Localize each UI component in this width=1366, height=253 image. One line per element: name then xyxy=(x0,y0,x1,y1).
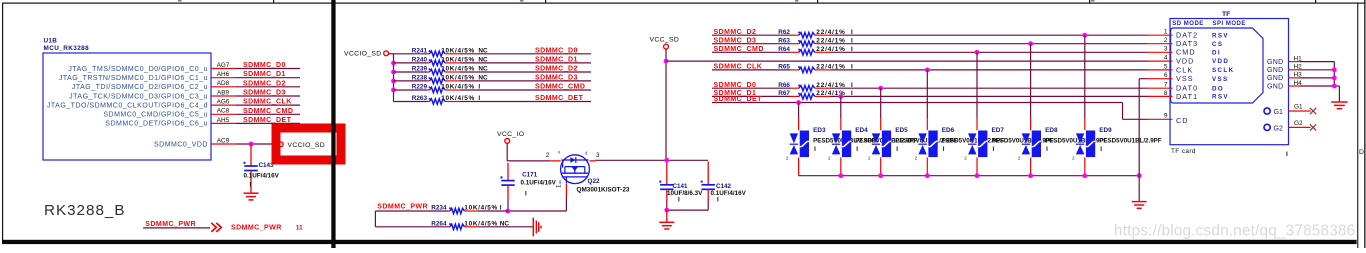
U1B pin AG7 (JTAG_TMS/SDMMC0_D0/GPIO6_C0_u) xyxy=(68,62,235,73)
TVS diode ED6 symbol xyxy=(915,131,938,161)
TVS diode ED7 symbol xyxy=(964,131,987,161)
junction GND bus xyxy=(1332,67,1337,72)
Q22 pin 3 stub xyxy=(590,152,601,161)
svg-text:AC8: AC8 xyxy=(217,108,230,115)
junction bus ED5 xyxy=(878,173,883,178)
resistor R241 10K/4/5% xyxy=(394,47,489,56)
svg-text:H1: H1 xyxy=(1294,55,1303,62)
TF pin 1 DAT2 xyxy=(1148,29,1229,40)
svg-text:C171: C171 xyxy=(522,172,538,179)
junction bus to VSS vertical xyxy=(1137,173,1142,178)
net label SDMMC_CMD xyxy=(712,46,791,53)
svg-text:R238: R238 xyxy=(412,75,428,82)
svg-text:DAT1: DAT1 xyxy=(1176,92,1198,101)
junction bus ED9 xyxy=(1082,173,1087,178)
svg-text:GND: GND xyxy=(1267,59,1283,66)
svg-text:G2: G2 xyxy=(1274,126,1283,133)
svg-text:R241: R241 xyxy=(412,47,428,54)
svg-text:I: I xyxy=(250,182,252,189)
svg-text:I: I xyxy=(525,191,527,198)
svg-text:SDMMC_DET: SDMMC_DET xyxy=(535,95,584,102)
wire net SDMMC_D1 xyxy=(460,56,591,63)
ground below C143 xyxy=(244,193,259,200)
TF pin 6 VSS xyxy=(1148,72,1229,83)
svg-text:SDMMC0_CMD/GPIO6_C5_u: SDMMC0_CMD/GPIO6_C5_u xyxy=(103,112,208,119)
svg-text:8: 8 xyxy=(1164,90,1168,97)
label ED4 PESD5V0U1BL/2.9PF xyxy=(855,127,917,153)
ground TVS/VSS xyxy=(1132,201,1147,209)
svg-text:SDMMC_D2: SDMMC_D2 xyxy=(535,66,578,73)
svg-text:0.1UF/4/16V: 0.1UF/4/16V xyxy=(244,173,280,180)
TVS diode ED4 symbol xyxy=(828,131,851,161)
svg-text:1: 1 xyxy=(1164,29,1168,36)
resistor R240 10K/4/5% xyxy=(394,57,489,66)
ground TF GND pins xyxy=(1331,102,1348,109)
svg-text:R67: R67 xyxy=(778,90,790,97)
TVS diode ED8 symbol xyxy=(1018,131,1041,161)
svg-text:D: D xyxy=(1359,149,1364,156)
svg-text:PESD5V0U1BL/2.9PF: PESD5V0U1BL/2.9PF xyxy=(1099,137,1161,144)
svg-text:AH5: AH5 xyxy=(217,117,230,124)
U1B pin AH5 (SDMMC0_DET/GPIO6_C6_u) xyxy=(105,117,235,128)
svg-text:SPI MODE: SPI MODE xyxy=(1213,21,1246,27)
net label SDMMC_D1 xyxy=(712,90,791,97)
svg-text:10UF/8/6.3V: 10UF/8/6.3V xyxy=(667,190,703,197)
junction bus ED4 xyxy=(838,173,843,178)
junction caps top xyxy=(664,158,669,163)
wire R264 to ground xyxy=(478,226,533,228)
svg-text:CD: CD xyxy=(1176,116,1189,125)
wire TF VSS pin6 to ground xyxy=(1139,79,1147,201)
power port VCCIO_SD (left sheet) xyxy=(278,142,325,149)
wire caps bottom xyxy=(667,201,708,210)
svg-text:I: I xyxy=(896,146,898,153)
net label SDMMC_CLK xyxy=(712,64,791,71)
wire AC9 to VCCIO_SD port xyxy=(236,143,279,145)
svg-text:R62: R62 xyxy=(778,29,790,36)
svg-text:AG7: AG7 xyxy=(217,62,230,69)
MCU U1B block body xyxy=(43,53,211,160)
junction VCC_SD to VDD row xyxy=(664,59,669,64)
wire net SDMMC_CMD xyxy=(236,108,300,115)
junction on VCCIO_SD bus xyxy=(391,61,396,66)
svg-text:SDMMC_PWR: SDMMC_PWR xyxy=(377,203,428,210)
svg-text:SDMMC_D1: SDMMC_D1 xyxy=(535,56,578,63)
svg-text:GND: GND xyxy=(1267,67,1283,74)
net label SDMMC_D3 xyxy=(712,37,791,44)
svg-text:4: 4 xyxy=(1164,55,1168,62)
wire C171 to gate junction xyxy=(507,199,509,211)
wire SDMMC_PWR to R264 xyxy=(374,211,376,227)
resistor R263 10K/4/5% xyxy=(394,95,481,104)
junction ED9 tap xyxy=(1082,33,1087,38)
annotation highlight box around VCCIO_SD xyxy=(276,128,341,160)
junction ED5 tap xyxy=(878,86,883,91)
svg-text:JTAG_TCK/SDMMC0_D3/GPIO6_C3_u: JTAG_TCK/SDMMC0_D3/GPIO6_C3_u xyxy=(69,93,208,100)
TF GND pin H3 xyxy=(1267,72,1334,83)
junction bus ED8 xyxy=(1028,173,1033,178)
svg-text:JTAG_TDI/SDMMC0_D2/GPIO6_C2_u: JTAG_TDI/SDMMC0_D2/GPIO6_C2_u xyxy=(72,84,208,91)
resistor R239 10K/4/5% xyxy=(394,66,489,75)
svg-text:VCCIO_SD: VCCIO_SD xyxy=(344,50,382,57)
junction bus ED6 xyxy=(925,173,930,178)
junction on VCCIO_SD bus xyxy=(391,88,396,93)
svg-text:JTAG_TMS/SDMMC0_D0/GPIO6_C0_u: JTAG_TMS/SDMMC0_D0/GPIO6_C0_u xyxy=(68,66,208,73)
label ED9 PESD5V0U1BL/2.9PF xyxy=(1099,127,1161,153)
svg-text:R264: R264 xyxy=(431,220,447,227)
svg-text:SD MODE: SD MODE xyxy=(1172,21,1204,27)
svg-text:I: I xyxy=(856,146,858,153)
junction C171/R234/gate xyxy=(506,209,511,214)
svg-text:ED3: ED3 xyxy=(813,127,826,134)
wire net SDMMC_D2 xyxy=(460,66,591,73)
resistor R65 22/4/1% xyxy=(778,64,853,73)
svg-text:R63: R63 xyxy=(778,37,790,44)
wire R234 to junction xyxy=(478,210,508,212)
svg-text:MCU_RK3288: MCU_RK3288 xyxy=(44,45,90,52)
svg-text:AH6: AH6 xyxy=(217,71,230,78)
net label SDMMC_D2 xyxy=(712,29,791,36)
wire net SDMMC_CMD xyxy=(460,84,591,91)
junction ED4 tap xyxy=(838,94,843,99)
capacitor C143 xyxy=(244,144,280,193)
resistor R66 22/4/1% xyxy=(778,82,853,91)
wire net SDMMC_D0 xyxy=(460,47,591,54)
svg-text:DO: DO xyxy=(1212,85,1224,92)
svg-text:SDMMC_CMD: SDMMC_CMD xyxy=(535,84,585,91)
TVS diode ED3 symbol xyxy=(786,131,809,161)
svg-text:SDMMC_D2: SDMMC_D2 xyxy=(243,80,286,87)
wire net SDMMC_D2 xyxy=(236,80,300,87)
wire net SDMMC_D3 xyxy=(460,74,591,81)
svg-text:s: s xyxy=(558,150,560,155)
TF pin 8 DAT1 xyxy=(1148,90,1229,101)
svg-text:JTAG_TRSTN/SDMMC0_D1/GPIO6_C1_: JTAG_TRSTN/SDMMC0_D1/GPIO6_C1_u xyxy=(59,75,208,82)
svg-text:VSS: VSS xyxy=(1212,76,1229,83)
resistor R62 22/4/1% xyxy=(778,29,853,38)
power port VCC_SD xyxy=(650,37,680,49)
wire SDMMC_CLK to TF xyxy=(831,69,1148,71)
U1B pin AC8 (SDMMC0_CMD/GPIO6_C5_u) xyxy=(103,108,235,119)
U1B pin AG6 (JTAG_TDO/SDMMC0_CLKOUT/GPIO6_C4_d) xyxy=(47,99,236,110)
svg-text:Q22: Q22 xyxy=(588,178,601,185)
label ED6 PESD5V0U1BL/2.9PF xyxy=(942,127,1004,153)
svg-text:R234: R234 xyxy=(431,205,447,212)
wire ED7 vertical xyxy=(976,52,978,175)
U1B pin AC9 SDMMC0_VDD xyxy=(154,137,236,148)
svg-text:TF: TF xyxy=(1222,11,1230,18)
wire ED6 vertical xyxy=(926,70,928,176)
svg-text:1: 1 xyxy=(556,184,563,188)
svg-text:VCC_IO: VCC_IO xyxy=(497,131,524,138)
sheet title RK3288_B xyxy=(44,202,125,219)
svg-text:DI: DI xyxy=(1212,49,1221,56)
svg-text:R64: R64 xyxy=(778,46,790,53)
label TF card xyxy=(1171,148,1196,155)
svg-text:https://blog.csdn.net/qq_37858: https://blog.csdn.net/qq_37858386 xyxy=(1114,223,1355,240)
connector TF body xyxy=(1170,19,1289,145)
wire ED3 vertical xyxy=(798,103,800,176)
ground sideways at R264 xyxy=(533,218,541,237)
svg-text:3: 3 xyxy=(596,152,600,159)
wire net SDMMC_D1 xyxy=(236,71,300,78)
junction GND bus xyxy=(1332,84,1337,89)
IC U1B designator label xyxy=(44,37,90,52)
svg-text:G1: G1 xyxy=(1294,104,1303,111)
junction on VCCIO_SD bus xyxy=(391,79,396,84)
svg-text:I: I xyxy=(993,146,995,153)
svg-text:R239: R239 xyxy=(412,66,428,73)
svg-text:RK3288_B: RK3288_B xyxy=(44,202,125,219)
label ED3 PESD5V0U1BL/2.9PF xyxy=(813,127,875,153)
wire GND bus down xyxy=(1334,62,1339,102)
svg-text:AC9: AC9 xyxy=(217,137,230,144)
junction GND bus xyxy=(1332,76,1337,81)
junction caps bottom xyxy=(664,208,669,213)
capacitor C141 xyxy=(659,162,703,204)
wire net SDMMC_CLK xyxy=(236,99,300,106)
svg-text:JTAG_TDO/SDMMC0_CLKOUT/GPIO6_C: JTAG_TDO/SDMMC0_CLKOUT/GPIO6_C4_d xyxy=(47,102,208,109)
label ED8 PESD5V0U1BL/2.9PF xyxy=(1045,127,1107,153)
svg-text:I: I xyxy=(1046,146,1048,153)
svg-text:I: I xyxy=(678,197,680,204)
svg-text:R65: R65 xyxy=(778,64,790,71)
svg-text:TF card: TF card xyxy=(1171,148,1196,155)
svg-text:VCC_SD: VCC_SD xyxy=(650,37,680,44)
svg-text:R66: R66 xyxy=(778,82,790,89)
wire gate to R234 xyxy=(508,196,567,211)
svg-text:AG6: AG6 xyxy=(217,99,230,106)
svg-text:I: I xyxy=(1286,151,1288,158)
TF pin 2 DAT3 xyxy=(1148,37,1224,48)
wire VCC_SD vertical xyxy=(665,49,667,160)
wire ED8 vertical xyxy=(1030,44,1032,176)
svg-text:SDMMC0_DET/GPIO6_C6_u: SDMMC0_DET/GPIO6_C6_u xyxy=(105,121,208,128)
wire net SDMMC_DET xyxy=(236,117,300,124)
svg-text:SDMMC0_VDD: SDMMC0_VDD xyxy=(154,141,208,148)
svg-text:7: 7 xyxy=(1164,82,1168,89)
svg-text:ED8: ED8 xyxy=(1045,127,1058,134)
junction ED3 tap xyxy=(796,100,801,105)
wire Q22 drain to caps xyxy=(596,159,709,161)
svg-text:SDMMC_PWR: SDMMC_PWR xyxy=(231,224,282,231)
svg-text:CMD: CMD xyxy=(1176,48,1196,57)
TVS diode ED5 symbol xyxy=(868,131,891,161)
svg-text:SDMMC_D3: SDMMC_D3 xyxy=(535,74,578,81)
svg-text:ED9: ED9 xyxy=(1099,127,1112,134)
svg-text:SDMMC_D0: SDMMC_D0 xyxy=(535,47,578,54)
svg-text:C141: C141 xyxy=(673,183,689,190)
net label SDMMC_D0 xyxy=(712,82,791,89)
TF pin 5 CLK xyxy=(1148,63,1235,74)
svg-text:SDMMC_PWR: SDMMC_PWR xyxy=(145,221,196,228)
TF no-connect pin G2 xyxy=(1264,120,1316,133)
svg-text:5: 5 xyxy=(1164,63,1168,70)
svg-text:2: 2 xyxy=(1164,37,1168,44)
junction ED7 tap xyxy=(975,50,980,55)
label ED5 PESD5V0U1BL/2.9PF xyxy=(895,127,957,153)
Q22 gate pin 1 xyxy=(556,184,567,196)
svg-text:I: I xyxy=(1100,146,1102,153)
TF GND pin H2 xyxy=(1267,64,1334,75)
wire net SDMMC_D0 xyxy=(236,62,300,69)
junction bus ED7 xyxy=(975,173,980,178)
resistor R64 22/4/1% xyxy=(778,46,853,55)
svg-text:GND: GND xyxy=(1267,83,1283,90)
TF pin 7 DAT0 xyxy=(1148,82,1225,93)
label TF xyxy=(1222,11,1230,18)
resistor R238 10K/4/5% xyxy=(394,75,489,84)
svg-text:VSS: VSS xyxy=(1176,74,1194,83)
wire VDD row VCC_SD to TF pin4 xyxy=(666,60,1148,62)
resistor R234 10K/4/5% xyxy=(375,205,501,214)
wire ED9 vertical xyxy=(1084,35,1086,176)
resistor R63 22/4/1% xyxy=(778,37,853,46)
U1B pin AH6 (JTAG_TRSTN/SDMMC0_D1/GPIO6_C1_u) xyxy=(59,71,236,82)
U1B pin AB9 (JTAG_TCK/SDMMC0_D3/GPIO6_C3_u) xyxy=(69,89,236,100)
watermark xyxy=(1114,223,1355,240)
ground below C141/C142 xyxy=(659,210,674,229)
junction on VCCIO_SD bus xyxy=(391,70,396,75)
svg-text:I: I xyxy=(943,146,945,153)
net label SDMMC_DET (to TF CD) xyxy=(712,96,1123,103)
TF pin 9 CD xyxy=(1148,113,1189,125)
junction ED6 tap xyxy=(925,68,930,73)
wire SDMMC_D3 to TF xyxy=(831,43,1148,45)
power port VCCIO_SD (right sheet) xyxy=(344,50,389,57)
capacitor C142 xyxy=(701,162,747,204)
label ED7 PESD5V0U1BL/2.9PF xyxy=(992,127,1054,153)
svg-text:2: 2 xyxy=(546,152,550,159)
svg-text:11: 11 xyxy=(296,224,303,231)
resistor R264 10K/4/5% NC xyxy=(375,220,509,229)
U1B pin AD8 (JTAG_TDI/SDMMC0_D2/GPIO6_C2_u) xyxy=(72,80,236,91)
TF GND pin H4 xyxy=(1267,80,1334,91)
header SD MODE / SPI MODE xyxy=(1172,21,1246,27)
svg-text:H3: H3 xyxy=(1294,72,1303,79)
svg-text:PESD5V0U1BL/2.9PF: PESD5V0U1BL/2.9PF xyxy=(1045,137,1107,144)
svg-text:R263: R263 xyxy=(412,95,428,102)
svg-text:SDMMC_D1: SDMMC_D1 xyxy=(243,71,286,78)
wire ED5 vertical xyxy=(880,88,882,176)
svg-text:3: 3 xyxy=(1164,46,1168,53)
svg-text:VDD: VDD xyxy=(1176,57,1194,66)
wire SDMMC_CMD to TF xyxy=(831,51,1148,53)
wire SDMMC_D0 to TF xyxy=(831,87,1148,89)
wire SDMMC_DET down to pin 9 xyxy=(1123,103,1148,120)
svg-text:I: I xyxy=(814,146,816,153)
svg-text:R229: R229 xyxy=(412,84,428,91)
svg-text:SDMMC_CLK: SDMMC_CLK xyxy=(243,99,292,106)
svg-text:RSV: RSV xyxy=(1212,32,1229,39)
junction ED8 tap xyxy=(1028,41,1033,46)
wire net SDMMC_DET xyxy=(460,95,591,102)
power port VCC_IO xyxy=(497,131,524,143)
svg-text:AB9: AB9 xyxy=(217,89,230,96)
off-page connector SDMMC_PWR xyxy=(143,221,303,232)
svg-text:G2: G2 xyxy=(1294,120,1303,127)
net label SDMMC_PWR xyxy=(377,203,428,210)
Q22 pin 2 stub xyxy=(546,152,561,161)
svg-text:SDMMC_DET: SDMMC_DET xyxy=(243,117,292,124)
wire VCC_IO to Q22 xyxy=(507,143,550,161)
svg-text:CLK: CLK xyxy=(1176,65,1193,74)
transistor Q22 QM3001K/SOT-23 xyxy=(558,150,589,185)
svg-text:0.1UF/4/16V: 0.1UF/4/16V xyxy=(521,180,557,187)
svg-text:C142: C142 xyxy=(716,183,732,190)
wire SDMMC_D2 to TF xyxy=(831,34,1148,36)
wire SDMMC_D1 to TF xyxy=(831,95,1148,97)
svg-text:I: I xyxy=(717,197,719,204)
TF GND pin H1 xyxy=(1267,55,1334,66)
resistor R67 22/4/1% xyxy=(778,90,853,99)
svg-text:H2: H2 xyxy=(1294,64,1303,71)
svg-text:SDMMC_CMD: SDMMC_CMD xyxy=(243,108,293,115)
capacitor C171 xyxy=(501,163,557,199)
svg-text:AD8: AD8 xyxy=(217,80,230,87)
resistor R229 10K/4/5% xyxy=(394,84,481,93)
svg-text:GND: GND xyxy=(1267,75,1283,82)
svg-text:RSV: RSV xyxy=(1212,94,1229,101)
TF no-connect pin G1 xyxy=(1264,104,1316,117)
svg-text:0.1UF/4/16V: 0.1UF/4/16V xyxy=(711,190,747,197)
svg-text:ED7: ED7 xyxy=(992,127,1005,134)
svg-text:R240: R240 xyxy=(412,57,428,64)
svg-text:9: 9 xyxy=(1164,113,1168,120)
svg-text:SCLK: SCLK xyxy=(1212,67,1234,74)
TF pin 4 VDD xyxy=(1148,55,1230,66)
sheet divider xyxy=(331,0,335,248)
svg-text:ED5: ED5 xyxy=(895,127,908,134)
svg-text:QM3001K/SOT-23: QM3001K/SOT-23 xyxy=(577,186,630,193)
svg-text:U1B: U1B xyxy=(44,37,58,44)
wire VCCIO_SD to resistor bank xyxy=(389,54,394,102)
svg-text:VCCIO_SD: VCCIO_SD xyxy=(288,142,326,149)
wire TVS ground bus xyxy=(799,175,1140,177)
svg-text:6: 6 xyxy=(1164,72,1168,79)
svg-text:G1: G1 xyxy=(1274,109,1283,116)
wire net SDMMC_D3 xyxy=(236,90,300,97)
svg-text:VDD: VDD xyxy=(1212,58,1229,65)
svg-text:ED4: ED4 xyxy=(855,127,868,134)
TF pin 3 CMD xyxy=(1148,46,1222,57)
svg-text:SDMMC_D0: SDMMC_D0 xyxy=(243,62,286,69)
wire ED4 vertical xyxy=(840,96,842,175)
TVS diode ED9 symbol xyxy=(1072,131,1095,161)
junction on SDMMC0_VDD wire xyxy=(249,142,254,147)
svg-text:SDMMC_D3: SDMMC_D3 xyxy=(243,90,286,97)
svg-text:H4: H4 xyxy=(1294,80,1303,87)
svg-text:CS: CS xyxy=(1212,41,1223,48)
svg-text:ED6: ED6 xyxy=(942,127,955,134)
